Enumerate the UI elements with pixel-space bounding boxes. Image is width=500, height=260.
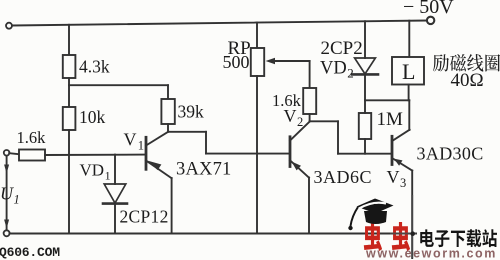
svg-text:V3: V3: [387, 167, 407, 190]
svg-text:4.3k: 4.3k: [79, 57, 110, 77]
svg-text:40Ω: 40Ω: [451, 70, 484, 91]
svg-text:3AD6C: 3AD6C: [314, 167, 373, 187]
svg-text:39k: 39k: [178, 102, 205, 122]
svg-text:3AX71: 3AX71: [176, 160, 231, 180]
svg-text:10k: 10k: [79, 107, 106, 127]
svg-text:VD1: VD1: [80, 161, 111, 183]
svg-text:www.eeworm.com: www.eeworm.com: [365, 247, 497, 260]
svg-text:− 50V: − 50V: [403, 0, 454, 18]
svg-text:500: 500: [223, 52, 250, 72]
svg-text:3AD30C: 3AD30C: [417, 144, 484, 164]
svg-text:2CP2: 2CP2: [321, 38, 363, 59]
svg-text:U1: U1: [0, 184, 20, 207]
svg-text:V1: V1: [124, 130, 144, 153]
svg-text:1M: 1M: [377, 109, 404, 130]
svg-text:1.6k: 1.6k: [17, 128, 47, 147]
svg-text:Q606.COM: Q606.COM: [0, 245, 60, 260]
svg-text:L: L: [402, 59, 415, 84]
svg-text:2CP12: 2CP12: [120, 207, 169, 227]
svg-text:VD2: VD2: [320, 59, 354, 81]
